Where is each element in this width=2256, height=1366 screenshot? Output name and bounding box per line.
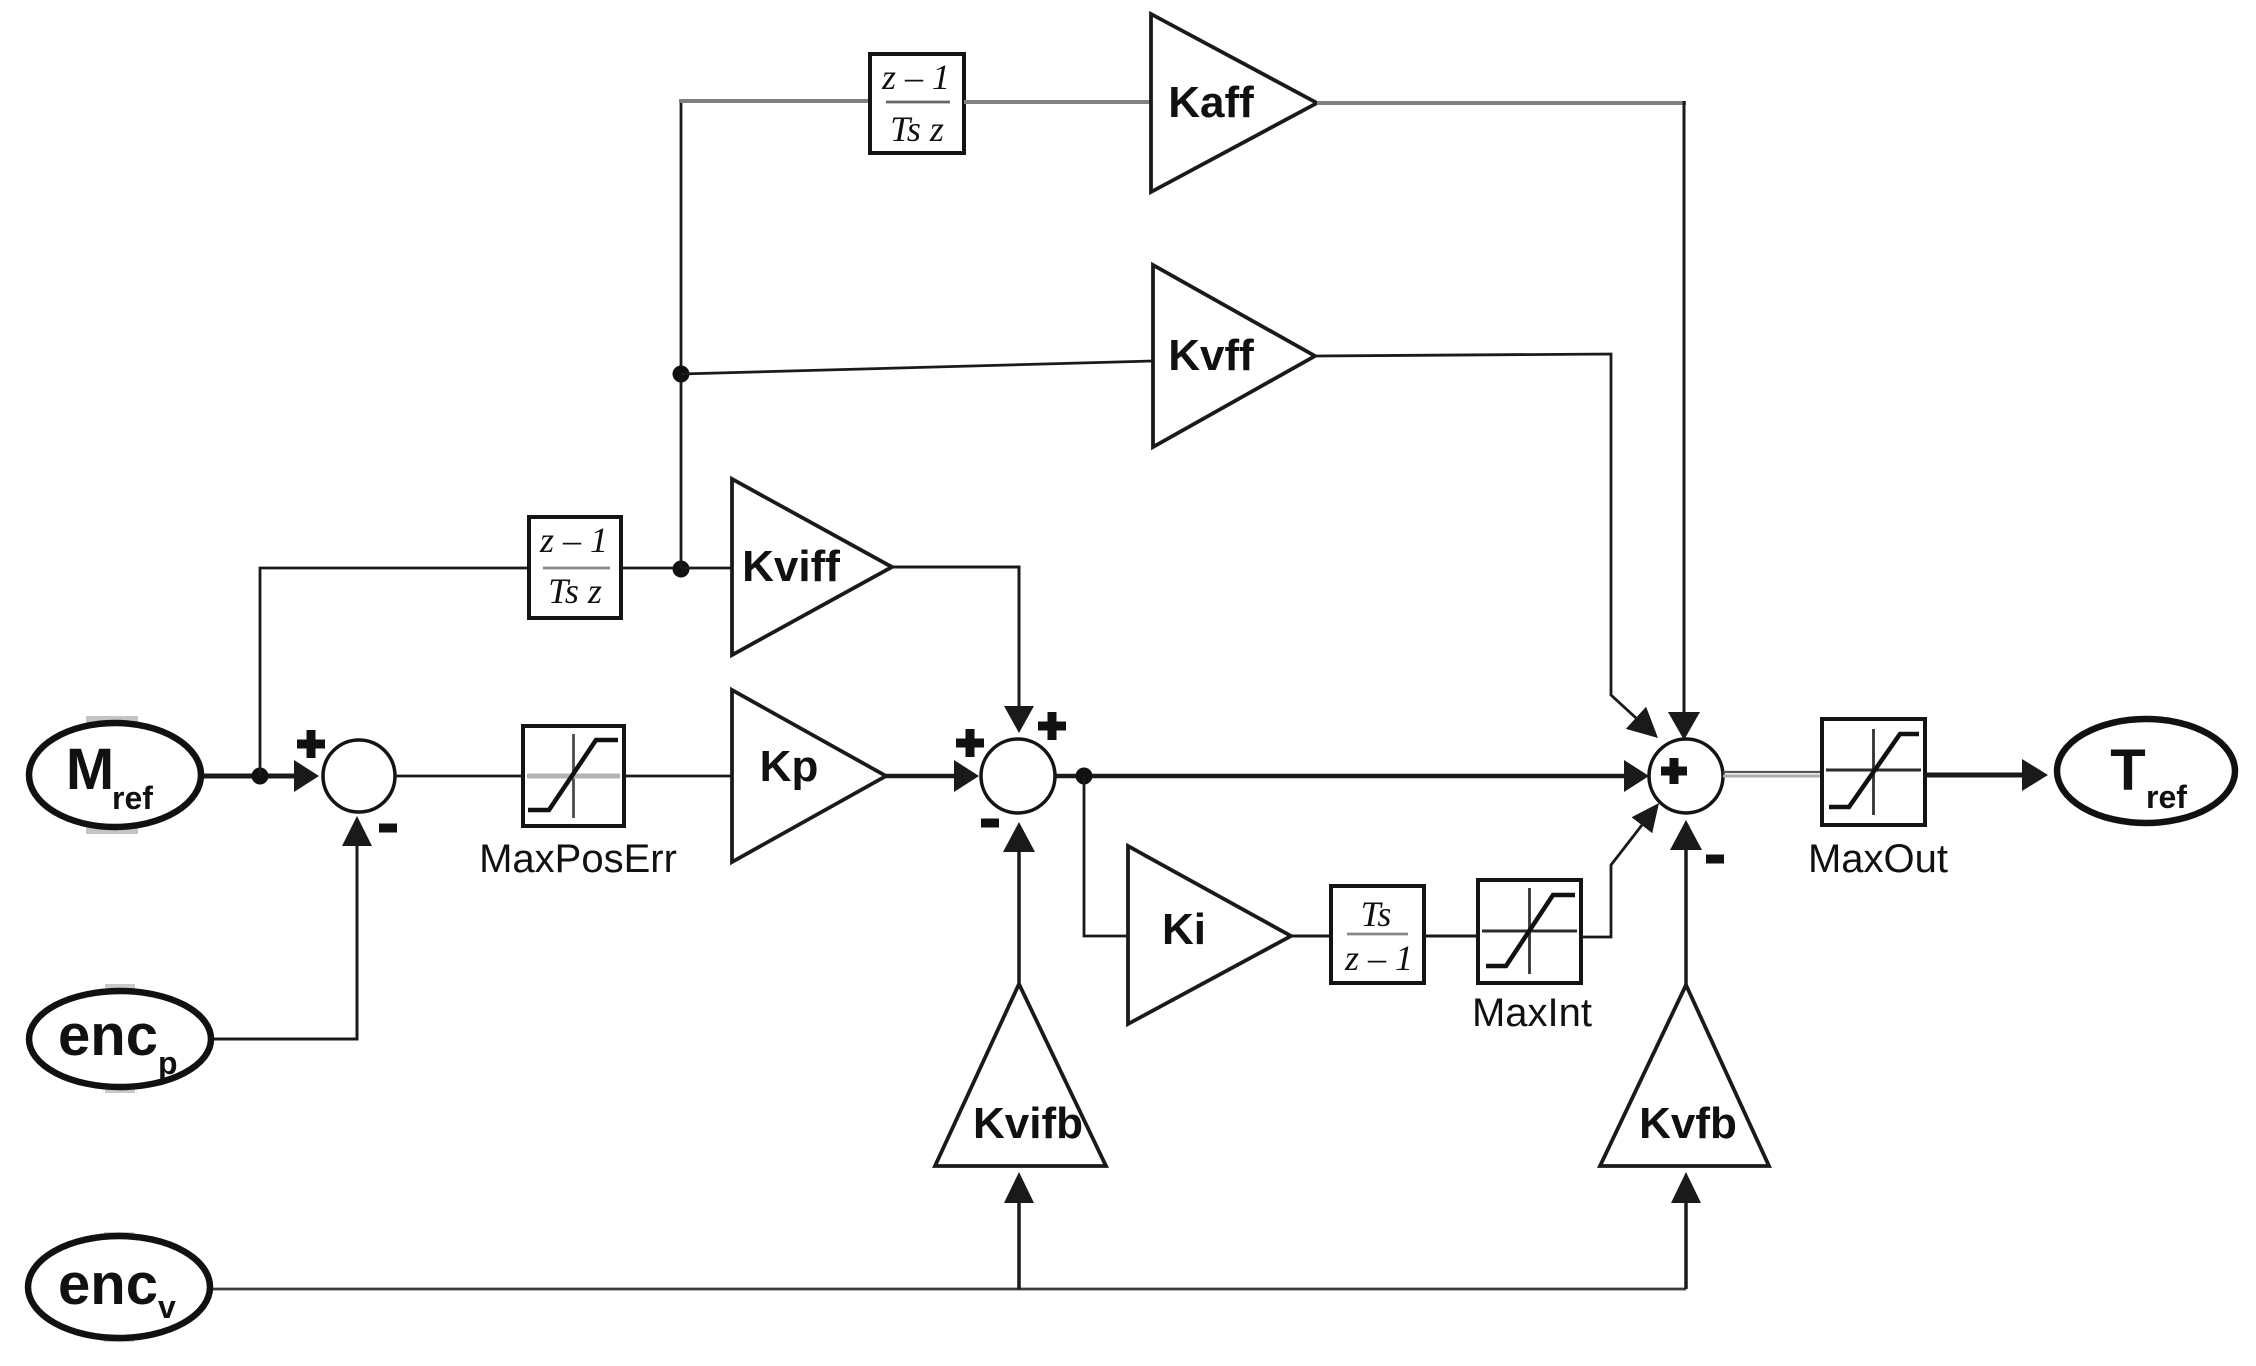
gain Kp xyxy=(732,690,886,862)
svg-text:z – 1: z – 1 xyxy=(881,57,950,97)
svg-text:Kaff: Kaff xyxy=(1168,78,1254,127)
svg-text:MaxOut: MaxOut xyxy=(1808,837,1948,881)
svg-text:Kvff: Kvff xyxy=(1168,331,1254,380)
wire I1 to MaxInt xyxy=(1424,935,1478,938)
sum junction S3 xyxy=(1649,739,1723,813)
wire Kviff to sum S2 (top input) xyxy=(892,567,1034,733)
wire D1 to Kaff xyxy=(964,100,1151,104)
wire enc_v branch up into Kvifb xyxy=(1004,1172,1034,1289)
wire S2 to sum S3 with junction node D xyxy=(1055,760,1649,792)
minus sign S3 xyxy=(1706,855,1724,864)
svg-text:p: p xyxy=(158,1045,178,1081)
svg-text:Ts z: Ts z xyxy=(890,109,944,149)
gain Ki xyxy=(1128,846,1291,1024)
vertical bus wire node B up with junction node C xyxy=(673,101,690,568)
plus sign S1 xyxy=(297,730,325,758)
input oval Mref xyxy=(29,716,201,834)
wire node B to Kviff xyxy=(681,567,732,570)
wire Kp to sum S2 xyxy=(886,760,979,792)
label MaxInt xyxy=(1472,991,1592,1035)
sum junction S1 xyxy=(323,740,395,812)
wire MaxPosErr to Kp xyxy=(624,775,732,778)
wire node C to Kvff xyxy=(681,361,1153,374)
wire S3 to MaxOut xyxy=(1723,772,1822,776)
input oval enc_p xyxy=(29,984,211,1093)
svg-text:MaxInt: MaxInt xyxy=(1472,991,1592,1035)
gain Kvifb xyxy=(935,984,1106,1166)
wire MaxInt to sum S3 (lower-left diagonal input) xyxy=(1581,803,1659,937)
wire Kvff to sum S3 (upper-left diagonal input) xyxy=(1315,354,1658,738)
wire Mref to sum S1 with junction node A xyxy=(203,760,319,792)
gain Kviff xyxy=(732,479,892,655)
svg-text:Kviff: Kviff xyxy=(742,542,840,591)
wire Kaff to sum S3 (top input) xyxy=(1317,101,1700,740)
output oval Tref xyxy=(2057,719,2235,823)
wire node D down to Ki xyxy=(1084,776,1128,936)
saturation block MaxInt xyxy=(1478,880,1581,983)
saturation block MaxOut xyxy=(1822,719,1925,825)
wire enc_p to sum S1 (minus input) xyxy=(214,816,372,1039)
svg-text:Ts: Ts xyxy=(1361,894,1392,934)
wire MaxOut to output oval Tref xyxy=(1925,759,2048,791)
svg-text:Ts z: Ts z xyxy=(548,571,602,611)
svg-text:v: v xyxy=(158,1289,176,1325)
wire Kvfb to sum S3 (minus input) xyxy=(1670,820,1702,985)
minus sign S2 xyxy=(981,819,999,828)
svg-text:z – 1: z – 1 xyxy=(539,520,608,560)
svg-text:Ki: Ki xyxy=(1162,905,1206,954)
derivative block D1 (z-1)/(Ts z) xyxy=(870,54,964,153)
plus sign S2 top xyxy=(1038,712,1066,740)
wire Ki to integrator I1 xyxy=(1291,935,1331,938)
svg-text:ref: ref xyxy=(2146,779,2187,815)
svg-text:Kvifb: Kvifb xyxy=(973,1099,1083,1148)
derivative block D2 (z-1)/(Ts z) xyxy=(529,517,621,618)
wire D2 to junction node B xyxy=(621,561,690,578)
label MaxOut xyxy=(1808,837,1948,881)
svg-text:ref: ref xyxy=(112,780,153,816)
plus sign S2 left xyxy=(956,729,984,757)
wire node A up to derivative block D2 xyxy=(260,568,529,776)
saturation block MaxPosErr xyxy=(523,726,624,826)
minus sign S1 xyxy=(379,824,397,833)
wire bus to derivative block D1 xyxy=(679,99,870,103)
label MaxPosErr xyxy=(479,837,677,881)
svg-text:M: M xyxy=(66,737,114,802)
gain Kaff xyxy=(1151,14,1317,192)
wire enc_v branch up into Kvfb xyxy=(1671,1172,1701,1289)
wire enc_v bus xyxy=(213,1288,1686,1291)
svg-text:MaxPosErr: MaxPosErr xyxy=(479,837,677,881)
svg-text:T: T xyxy=(2110,738,2145,803)
svg-text:enc: enc xyxy=(58,1252,158,1317)
svg-text:Kvfb: Kvfb xyxy=(1639,1099,1737,1148)
wire Kvifb to sum S2 (minus input) xyxy=(1003,822,1035,984)
svg-text:z – 1: z – 1 xyxy=(1344,938,1413,978)
gain Kvfb xyxy=(1600,985,1769,1166)
svg-text:Kp: Kp xyxy=(760,742,819,791)
sum junction S2 xyxy=(981,739,1055,813)
wire S1 to MaxPosErr xyxy=(395,775,523,778)
gain Kvff xyxy=(1153,265,1315,447)
svg-text:enc: enc xyxy=(58,1003,158,1068)
input oval enc_v xyxy=(28,1232,210,1342)
integrator block I1 Ts/(z-1) xyxy=(1331,886,1424,983)
